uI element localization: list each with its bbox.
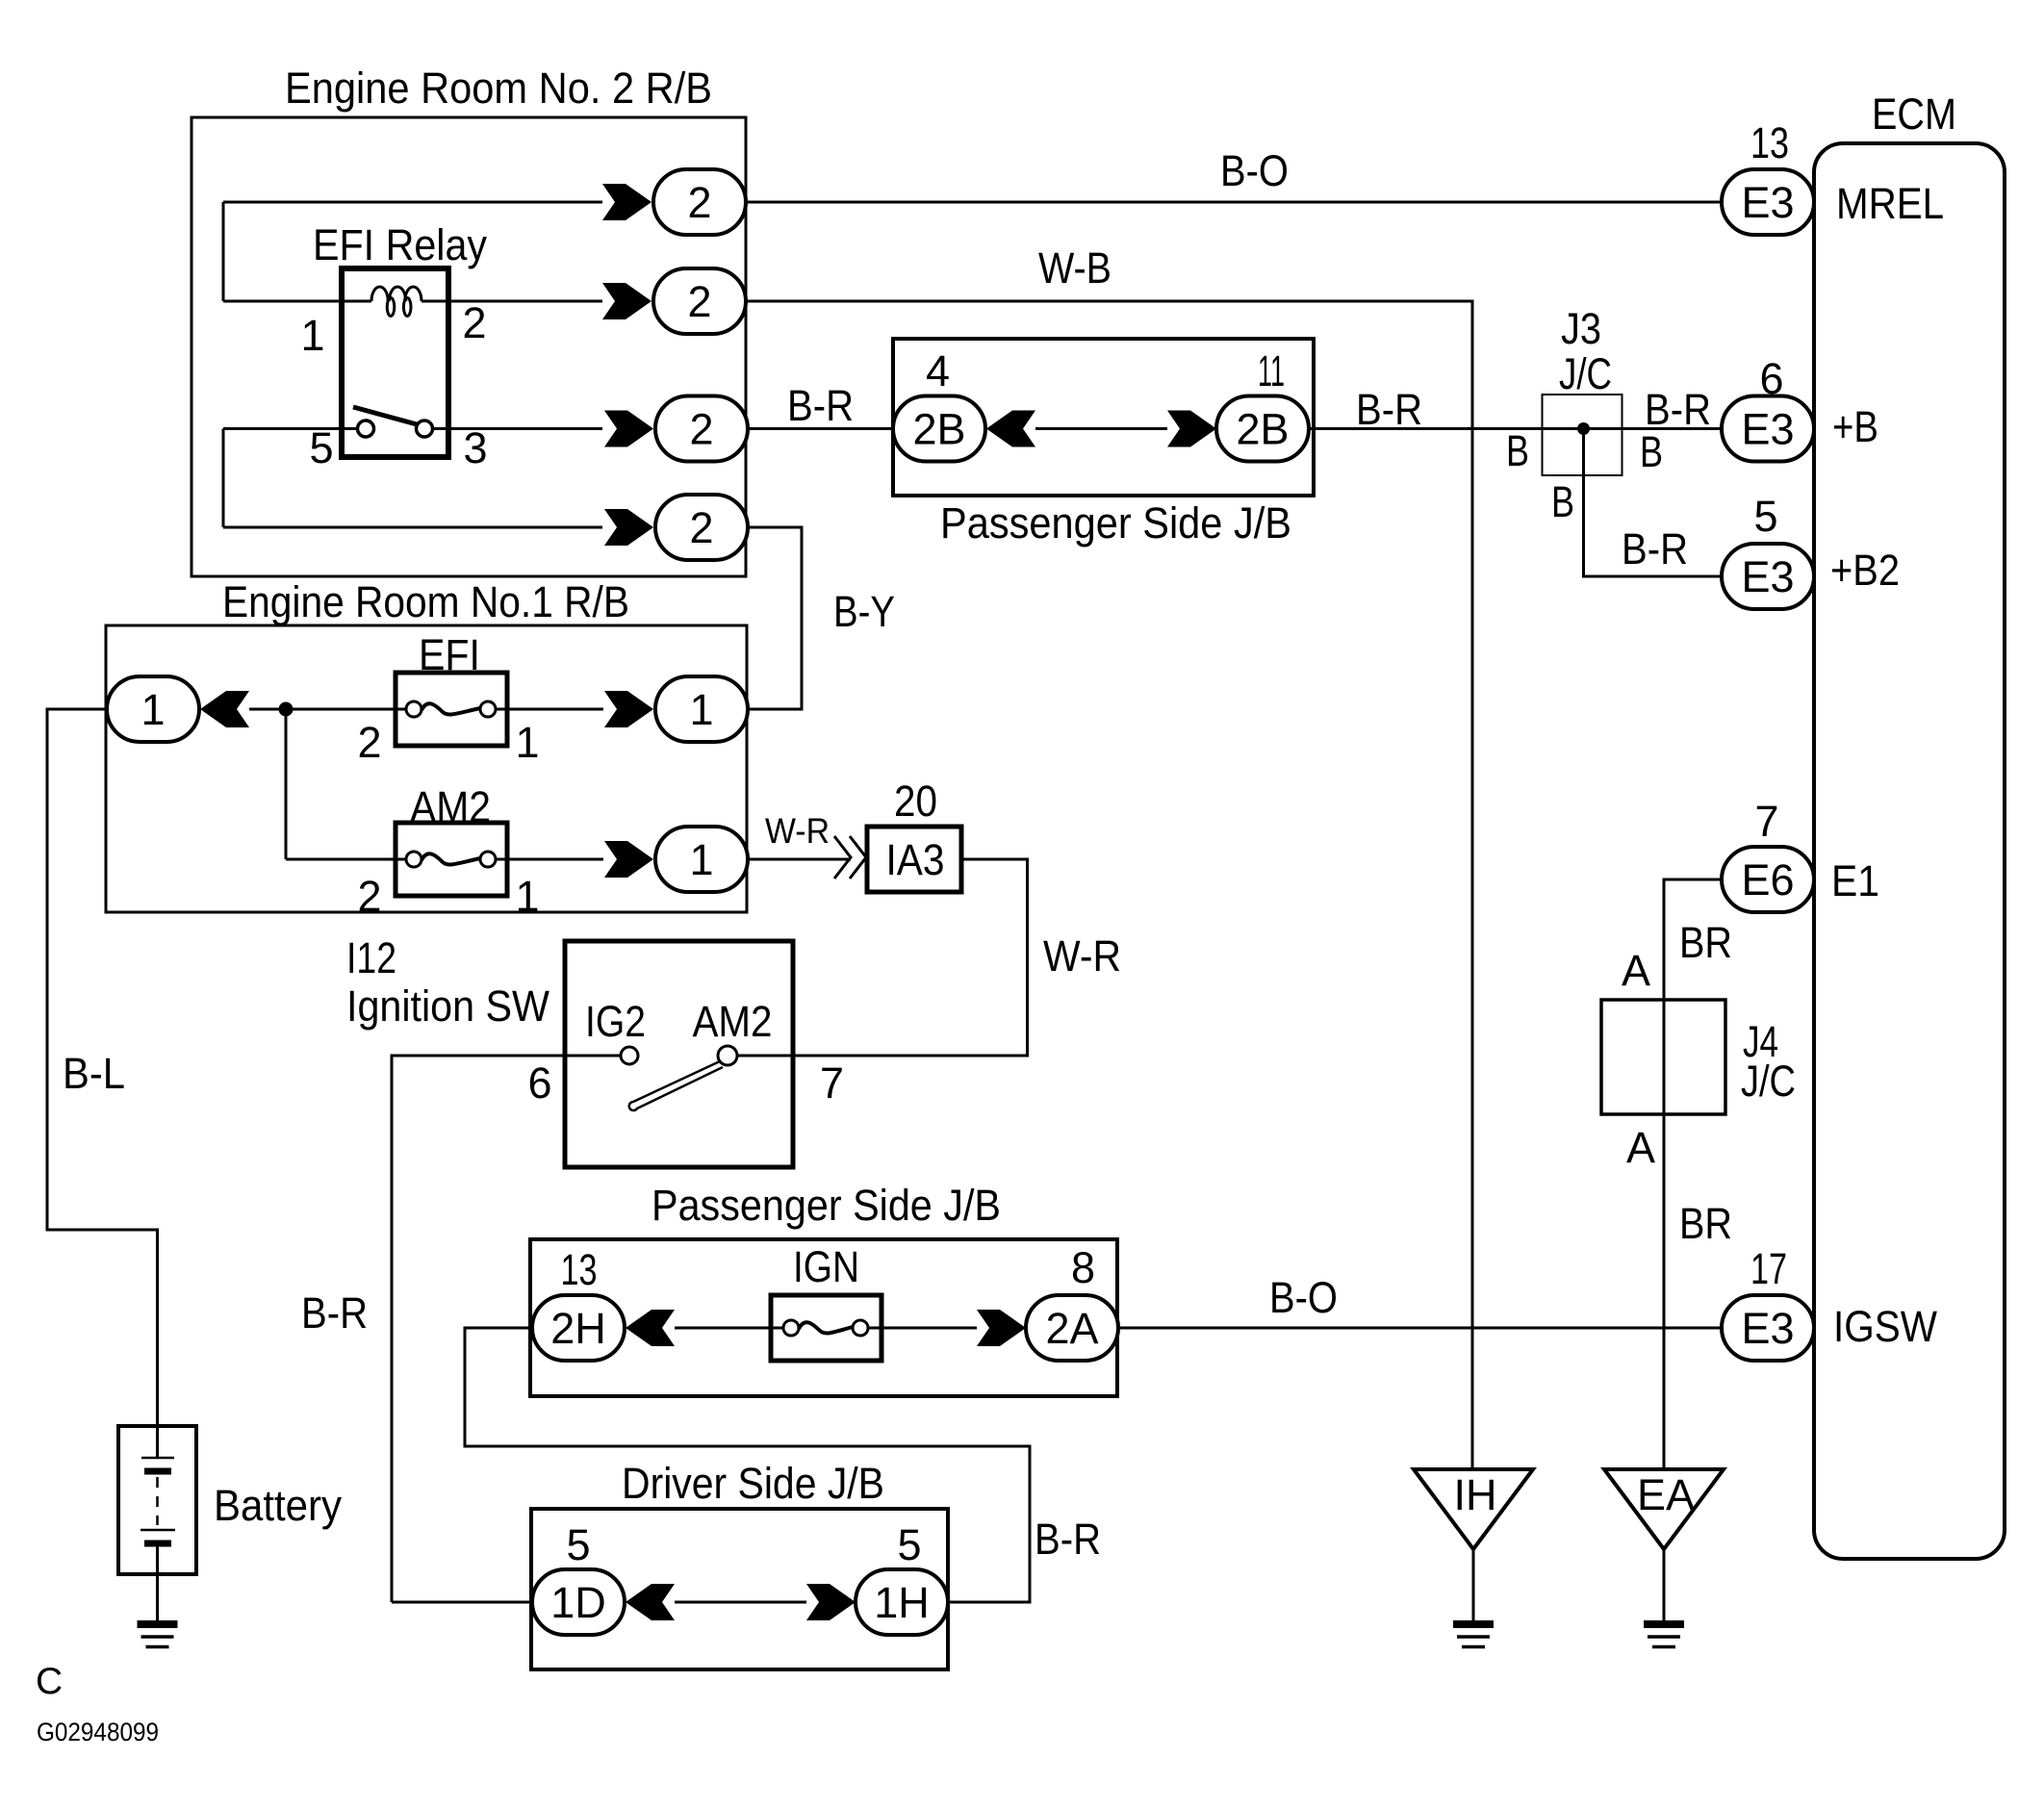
svg-text:B-L: B-L: [63, 1049, 125, 1098]
connector 1 (EFI fuse out): [655, 676, 748, 742]
svg-text:Engine Room No.1 R/B: Engine Room No.1 R/B: [222, 577, 629, 626]
ground symbol (battery): [138, 1624, 178, 1647]
ignition switch AM2 contact: [718, 1046, 737, 1065]
wire into 1D: [392, 1601, 532, 1604]
svg-text:17: 17: [1750, 1244, 1787, 1293]
ground symbol (EA): [1644, 1624, 1684, 1647]
connector E3 pin 17 (IGSW): [1722, 1295, 1814, 1361]
svg-text:G02948099: G02948099: [37, 1718, 159, 1746]
connector 2 (row 1, to MREL): [653, 169, 746, 235]
svg-text:IH: IH: [1454, 1470, 1497, 1519]
ECM box: [1814, 143, 2005, 1559]
connector arrow into 2A: [977, 1310, 1026, 1346]
wire relay block to connector 2 pin (top, MREL feed): [223, 201, 602, 204]
wire vertical branch to AM2 fuse: [285, 709, 288, 859]
wire B-R: IG2 down to Driver Side J/B 1D: [392, 1056, 621, 1602]
svg-text:B: B: [1640, 427, 1663, 476]
connector arrow into 1 (AM2 fuse out): [604, 841, 653, 878]
relay EFI Relay box: [342, 268, 448, 457]
svg-text:7: 7: [1754, 797, 1778, 846]
svg-text:Passenger Side J/B: Passenger Side J/B: [652, 1181, 1001, 1230]
wire B-R: connector 2 to Passenger Side J/B 2B: [746, 427, 893, 430]
wire EA triangle to ground: [1663, 1549, 1666, 1624]
junction dot EFI/AM2 branch: [279, 702, 294, 717]
svg-text:AM2: AM2: [410, 782, 491, 831]
wire W-B net: connector 2 down to IH ground triangle: [746, 301, 1472, 1467]
svg-text:B-R: B-R: [1035, 1515, 1101, 1564]
svg-text:E6: E6: [1741, 855, 1794, 904]
svg-text:B: B: [1551, 477, 1574, 526]
junction connector J3 J/C box: [1543, 395, 1622, 475]
AM2 fuse element: [406, 852, 422, 867]
svg-text:BR: BR: [1679, 918, 1732, 967]
wire B-L net: connector 1 to battery positive: [47, 709, 158, 1426]
svg-text:Driver Side J/B: Driver Side J/B: [622, 1459, 884, 1508]
wire from connector 1 to EFI fuse: [249, 708, 406, 711]
svg-text:13: 13: [1750, 118, 1789, 167]
junction box Driver Side J/B: [531, 1509, 948, 1669]
svg-text:5: 5: [1753, 492, 1777, 541]
svg-text:2: 2: [687, 178, 711, 227]
connector 1 (AM2 fuse out): [655, 827, 748, 892]
connector arrow into 2 (row 1): [602, 184, 652, 220]
page connector chevrons before IA3: [834, 836, 851, 879]
svg-text:+B: +B: [1832, 402, 1878, 451]
svg-text:8: 8: [1071, 1243, 1095, 1292]
wire IGN fuse to 2A: [868, 1327, 977, 1330]
svg-text:E3: E3: [1741, 178, 1794, 227]
wire relay switch pin 3 to connector 2: [433, 427, 602, 430]
svg-text:EFI Relay: EFI Relay: [313, 220, 487, 269]
svg-text:1: 1: [300, 311, 324, 360]
connector IA3 box: [867, 827, 961, 892]
svg-text:1: 1: [689, 835, 713, 884]
IGN fuse element: [783, 1320, 799, 1336]
connector arrow into 1H: [806, 1584, 856, 1620]
svg-text:B: B: [1506, 426, 1529, 475]
connector arrow out of 2B (pin 4): [986, 411, 1035, 447]
connector 2 (row 4, B-Y): [655, 495, 748, 560]
svg-text:5: 5: [309, 423, 333, 472]
svg-text:IG2: IG2: [585, 997, 646, 1046]
svg-text:2: 2: [357, 718, 381, 767]
svg-text:1: 1: [141, 685, 165, 734]
wire to bottom connector 2 (B-Y feed): [223, 526, 602, 529]
wire relay coil pin 1 side: [223, 300, 371, 303]
svg-text:IGSW: IGSW: [1833, 1302, 1937, 1351]
wire vertical joining MREL feed to relay coil pin 1: [222, 202, 225, 301]
wire inside Driver Side J/B: [675, 1601, 806, 1604]
svg-text:B-R: B-R: [787, 381, 854, 430]
svg-text:2: 2: [689, 503, 713, 552]
svg-text:E3: E3: [1741, 405, 1794, 454]
svg-text:E1: E1: [1831, 856, 1879, 905]
wire B-O net: 2A to ECM IGSW: [1118, 1327, 1723, 1330]
svg-text:I12: I12: [346, 933, 396, 982]
junction box Passenger Side J/B (upper): [893, 339, 1314, 496]
svg-text:W-R: W-R: [1043, 931, 1121, 981]
svg-text:7: 7: [820, 1058, 844, 1108]
relay block box Engine Room No.1 R/B: [106, 625, 747, 912]
svg-text:2: 2: [462, 298, 486, 347]
svg-text:Engine Room No. 2 R/B: Engine Room No. 2 R/B: [285, 64, 712, 113]
svg-text:11: 11: [1258, 346, 1285, 395]
connector 2B (pin 11): [1216, 396, 1309, 462]
ground triangle IH: [1414, 1469, 1533, 1549]
junction box Passenger Side J/B (lower): [530, 1239, 1117, 1396]
svg-text:IA3: IA3: [886, 835, 945, 884]
svg-text:3: 3: [463, 423, 487, 472]
svg-text:J/C: J/C: [1559, 349, 1612, 398]
svg-text:Ignition SW: Ignition SW: [346, 981, 549, 1031]
connector 2 (row 2, to W-B): [653, 268, 746, 334]
connector E6 pin 7 (E1): [1722, 847, 1814, 912]
EFI fuse element: [406, 701, 422, 717]
svg-text:B-R: B-R: [1356, 385, 1422, 434]
svg-text:2: 2: [357, 872, 381, 921]
svg-text:ECM: ECM: [1872, 89, 1956, 139]
connector arrow into 2 (row 2): [602, 283, 652, 319]
EFI relay switch blade: [353, 407, 417, 424]
svg-text:2B: 2B: [1236, 405, 1289, 454]
svg-text:MREL: MREL: [1836, 179, 1944, 228]
svg-text:2B: 2B: [912, 405, 965, 454]
wire branch to AM2 fuse pin 2: [286, 858, 406, 861]
connector arrow into 2 (row 3): [604, 411, 653, 447]
wire W-R: connector 1 to IA3: [748, 858, 851, 861]
wire relay switch pin 5 side: [223, 427, 357, 430]
svg-text:EA: EA: [1637, 1470, 1695, 1519]
wire BR net: E6 E1 down through J4 to EA: [1664, 879, 1722, 1467]
svg-text:6: 6: [527, 1058, 551, 1108]
connector E3 pin 6 (+B): [1722, 396, 1814, 462]
junction connector J4 J/C box: [1601, 1000, 1725, 1114]
EFI relay coil: [371, 287, 422, 317]
connector arrow out of 1 (battery feed): [200, 691, 249, 727]
svg-text:13: 13: [561, 1245, 598, 1294]
connector 2A (pin 8): [1026, 1295, 1118, 1361]
ground triangle EA: [1604, 1469, 1724, 1549]
connector E3 pin 13 (MREL): [1722, 169, 1814, 235]
svg-text:BR: BR: [1679, 1199, 1732, 1248]
svg-text:IGN: IGN: [793, 1242, 859, 1291]
svg-text:2: 2: [687, 277, 711, 326]
connector 1D (pin 5): [532, 1569, 625, 1635]
connector 2B (pin 4): [893, 396, 985, 462]
wire B-R: 2B pin 11 through J3 J/C to ECM +B: [1309, 427, 1723, 430]
junction dot in J3: [1577, 422, 1590, 435]
battery box: [118, 1426, 196, 1574]
svg-text:B-R: B-R: [1622, 524, 1688, 573]
connector arrow out of 1D: [626, 1584, 675, 1620]
connector arrow into 2 (row 4): [604, 509, 653, 546]
connector arrow into 2B (pin 11): [1167, 411, 1216, 447]
svg-text:5: 5: [566, 1520, 590, 1569]
svg-text:2H: 2H: [550, 1304, 606, 1353]
battery cell symbol: [141, 1426, 175, 1624]
svg-text:A: A: [1626, 1123, 1655, 1172]
svg-text:J/C: J/C: [1741, 1057, 1796, 1106]
wire IH triangle to ground: [1472, 1549, 1475, 1624]
wire B-R: J3 junction to ECM +B2: [1584, 429, 1724, 577]
ignition switch lever: [629, 1061, 723, 1110]
svg-text:20: 20: [894, 777, 937, 826]
svg-text:4: 4: [926, 346, 950, 395]
svg-text:Battery: Battery: [214, 1481, 342, 1530]
svg-text:EFI: EFI: [419, 630, 480, 679]
svg-text:E3: E3: [1741, 552, 1794, 601]
svg-text:1D: 1D: [550, 1578, 606, 1627]
wire relay coil pin 2 to connector 2: [422, 300, 602, 303]
svg-text:+B2: +B2: [1830, 546, 1900, 595]
wire B-O net: connector 2 to ECM MREL E3: [746, 201, 1723, 204]
fuse AM2 box: [396, 823, 507, 896]
fuse IGN box: [771, 1295, 881, 1361]
wire vertical joining pin 5 to bottom connector 2: [222, 429, 225, 528]
connector 1H (pin 5): [856, 1569, 948, 1635]
svg-text:C: C: [36, 1661, 63, 1702]
svg-text:W-R: W-R: [765, 811, 830, 851]
wire inside Passenger Side J/B: [1035, 427, 1167, 430]
ignition switch IG2 contact: [621, 1047, 638, 1064]
svg-text:5: 5: [897, 1520, 921, 1569]
wire 2H to IGN fuse: [675, 1327, 783, 1330]
svg-text:A: A: [1622, 946, 1650, 995]
wire B-R net: 2H around to 1H: [465, 1328, 1030, 1602]
connector 2H (pin 13): [532, 1295, 625, 1361]
wire AM2 fuse pin 1 to connector 1: [496, 858, 603, 861]
fuse EFI box: [396, 673, 507, 746]
connector 2 (row 3, B-R): [655, 396, 748, 462]
svg-text:B-Y: B-Y: [833, 587, 895, 636]
wire B-Y net: connector 2 to EFI fuse output: [746, 527, 802, 709]
wire W-R: IA3 down to ignition switch AM2: [738, 859, 1028, 1056]
svg-text:B-O: B-O: [1220, 146, 1289, 195]
connector arrow out of 2H: [626, 1310, 675, 1346]
svg-text:1: 1: [515, 872, 539, 921]
relay block box Engine Room No. 2 R/B: [192, 117, 746, 576]
connector 1 (battery feed): [107, 676, 199, 742]
svg-text:B-R: B-R: [301, 1288, 368, 1338]
svg-text:2: 2: [689, 405, 713, 454]
switch I12 Ignition SW box: [565, 941, 793, 1167]
svg-text:W-B: W-B: [1038, 243, 1111, 293]
ground symbol (IH): [1453, 1624, 1494, 1647]
svg-text:E3: E3: [1741, 1304, 1794, 1353]
svg-text:AM2: AM2: [693, 997, 773, 1046]
svg-text:J3: J3: [1561, 304, 1601, 353]
connector arrow into 1 (EFI fuse out): [604, 691, 653, 727]
svg-text:1H: 1H: [874, 1578, 930, 1627]
EFI relay switch contacts: [358, 420, 374, 437]
svg-text:1: 1: [689, 685, 713, 734]
svg-text:Passenger Side J/B: Passenger Side J/B: [940, 498, 1291, 548]
connector E3 pin 5 (+B2): [1722, 544, 1814, 609]
svg-text:2A: 2A: [1045, 1304, 1098, 1353]
svg-text:1: 1: [515, 718, 539, 767]
wire EFI fuse pin 1 to connector 1: [496, 708, 603, 711]
svg-text:B-O: B-O: [1269, 1273, 1338, 1322]
